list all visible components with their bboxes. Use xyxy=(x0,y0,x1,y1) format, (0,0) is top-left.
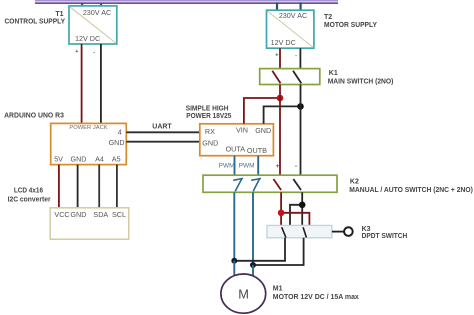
wire K1 to K2 plus rail xyxy=(279,85,281,176)
svg-text:+: + xyxy=(276,164,280,170)
wire K2 minus down xyxy=(301,192,303,225)
wire K2 OUTA down xyxy=(233,192,235,260)
wire VIN to plus rail xyxy=(244,98,280,124)
wire motor A xyxy=(233,261,235,276)
wire GND to GND xyxy=(77,165,79,208)
transformer T2 xyxy=(267,10,314,59)
switch K3 xyxy=(267,225,332,237)
K3 contact 1 xyxy=(282,227,286,237)
K2 contact minus xyxy=(293,179,301,190)
wire K2 plus down xyxy=(280,192,282,225)
svg-text:T2: T2 xyxy=(324,14,332,21)
svg-text:PWM: PWM xyxy=(219,163,235,170)
svg-text:GND: GND xyxy=(71,155,87,164)
svg-text:5V: 5V xyxy=(54,155,63,164)
wire T1 12V minus xyxy=(100,44,102,123)
arduino U1 xyxy=(51,123,127,164)
svg-text:PWM: PWM xyxy=(239,163,255,170)
svg-text:UART: UART xyxy=(152,123,172,130)
svg-text:GND: GND xyxy=(70,210,86,219)
node GND junction xyxy=(297,103,304,110)
svg-text:SIMPLE HIGH: SIMPLE HIGH xyxy=(186,106,229,113)
wire UART RX xyxy=(126,131,200,133)
svg-text:SCL: SCL xyxy=(112,210,126,219)
svg-text:-: - xyxy=(93,49,95,55)
wire plus crossover xyxy=(281,213,309,226)
svg-text:RX: RX xyxy=(205,127,215,136)
svg-text:LCD 4x16: LCD 4x16 xyxy=(14,188,43,195)
svg-text:MOTOR SUPPLY: MOTOR SUPPLY xyxy=(324,22,377,29)
wire OUTB PWM xyxy=(257,156,259,176)
K1 contact 1 xyxy=(272,71,280,84)
wire T2 12V plus xyxy=(279,48,281,68)
wire minus crossover xyxy=(290,205,302,226)
svg-text:MAIN SWITCH (2NO): MAIN SWITCH (2NO) xyxy=(328,78,394,85)
svg-text:A5: A5 xyxy=(112,155,121,164)
svg-text:+: + xyxy=(75,49,78,55)
wire K2 OUTB down xyxy=(252,192,254,265)
wire K1 to K2 minus rail xyxy=(300,85,302,176)
svg-text:-: - xyxy=(295,164,297,170)
wire A4 to SDA xyxy=(98,165,100,208)
svg-text:230V AC: 230V AC xyxy=(83,8,111,17)
svg-text:4: 4 xyxy=(118,127,122,136)
node plus junction xyxy=(278,210,285,217)
node motor B xyxy=(250,262,256,268)
transformer T1 xyxy=(69,6,117,56)
svg-text:GND: GND xyxy=(255,126,271,135)
K2 contact A xyxy=(233,178,243,191)
driver U2 simple high power 18V25 xyxy=(200,124,274,156)
svg-text:GND: GND xyxy=(202,139,218,148)
svg-text:OUTA: OUTA xyxy=(226,145,246,154)
wire T2 AC live xyxy=(276,2,278,10)
relay K2 xyxy=(203,175,337,192)
motor M1 xyxy=(221,274,266,313)
svg-text:OUTB: OUTB xyxy=(247,146,267,155)
svg-text:MANUAL / AUTO SWITCH (2NC + 2: MANUAL / AUTO SWITCH (2NC + 2NO) xyxy=(349,187,473,194)
svg-text:12V DC: 12V DC xyxy=(271,38,296,47)
wire UART GND xyxy=(126,141,200,143)
svg-text:T1: T1 xyxy=(55,11,63,18)
svg-text:CONTROL SUPPLY: CONTROL SUPPLY xyxy=(5,19,66,26)
wire OUTA PWM xyxy=(234,156,236,176)
node minus junction xyxy=(299,202,306,209)
label SIMPLE HIGH POWER 18V25 xyxy=(186,106,232,120)
svg-text:230V AC: 230V AC xyxy=(279,11,307,20)
svg-text:M: M xyxy=(238,287,249,302)
svg-text:DPDT SWITCH: DPDT SWITCH xyxy=(362,233,408,240)
svg-text:ARDUINO UNO R3: ARDUINO UNO R3 xyxy=(4,113,64,120)
wire 5V to VCC xyxy=(58,165,60,208)
svg-text:+: + xyxy=(275,53,278,59)
wire AC bus xyxy=(35,0,338,4)
wire motor B xyxy=(252,265,254,276)
svg-text:I2C converter: I2C converter xyxy=(8,196,51,203)
wire T1 12V plus xyxy=(81,44,83,123)
wire T1 AC neutral xyxy=(100,3,102,7)
svg-text:K1: K1 xyxy=(329,70,338,77)
wire K3 out A xyxy=(234,238,285,261)
K3 contact 2 xyxy=(303,227,306,237)
svg-text:-: - xyxy=(295,53,297,59)
svg-text:MOTOR 12V DC / 15A max: MOTOR 12V DC / 15A max xyxy=(273,294,359,301)
K3 knob xyxy=(344,227,353,236)
svg-text:VIN: VIN xyxy=(236,125,248,134)
node motor A xyxy=(231,258,237,264)
K2 contact B xyxy=(251,178,261,191)
wire driver GND to minus rail xyxy=(264,106,301,123)
wire K3 out B xyxy=(253,238,304,265)
relay K1 xyxy=(260,69,320,85)
svg-text:A4: A4 xyxy=(95,155,104,164)
wire T2 AC neutral xyxy=(300,2,302,10)
svg-text:VCC: VCC xyxy=(54,210,69,219)
wire K3 actuator xyxy=(332,231,344,233)
wire A5 to SCL xyxy=(116,165,118,208)
wire T1 AC live xyxy=(81,3,83,7)
svg-text:POWER JACK: POWER JACK xyxy=(69,125,107,131)
svg-text:M1: M1 xyxy=(273,286,283,293)
svg-text:GND: GND xyxy=(109,138,125,147)
svg-text:SDA: SDA xyxy=(93,210,108,219)
K1 contact 2 xyxy=(293,71,301,84)
node VIN junction xyxy=(277,95,284,102)
wire T2 12V minus xyxy=(299,48,301,68)
svg-text:12V DC: 12V DC xyxy=(75,34,100,43)
svg-text:POWER 18V25: POWER 18V25 xyxy=(186,113,231,120)
svg-text:K2: K2 xyxy=(350,178,359,185)
K2 contact plus xyxy=(273,179,281,190)
lcd LCD1 xyxy=(50,208,129,239)
svg-text:K3: K3 xyxy=(362,226,371,233)
